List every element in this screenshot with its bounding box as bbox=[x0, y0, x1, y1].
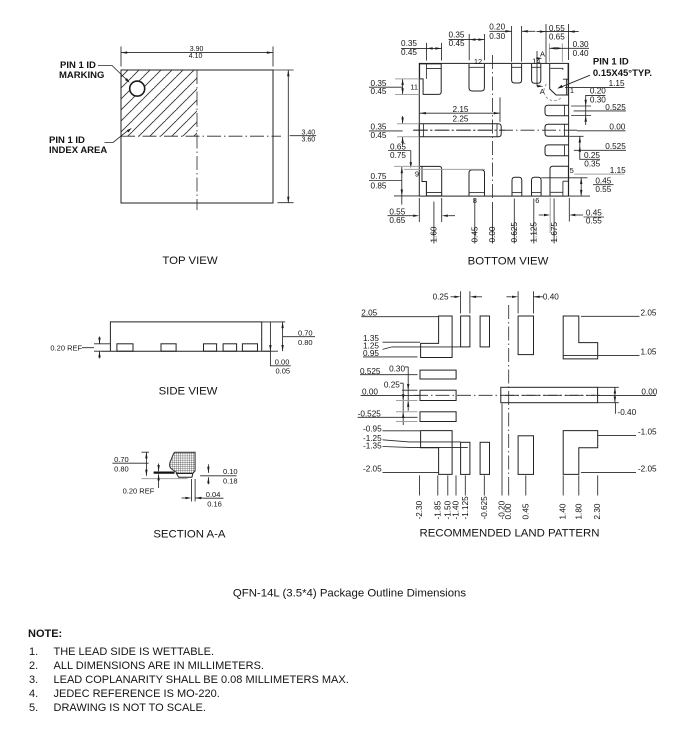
section cut line A-A bbox=[536, 51, 538, 86]
svg-text:0.45: 0.45 bbox=[371, 87, 387, 96]
pin 1 chamfer dashed arc bbox=[544, 84, 562, 101]
svg-text:-0.625: -0.625 bbox=[480, 496, 489, 520]
svg-text:0.45: 0.45 bbox=[471, 226, 480, 242]
dimension 0.04/0.16 bbox=[192, 479, 196, 502]
land pad bottom B bbox=[480, 442, 489, 474]
svg-text:A: A bbox=[540, 50, 545, 59]
svg-text:0.65: 0.65 bbox=[389, 216, 405, 225]
svg-text:0.45: 0.45 bbox=[449, 39, 465, 48]
svg-text:0.30: 0.30 bbox=[573, 40, 589, 49]
land pad bottom center bbox=[518, 436, 533, 475]
svg-text:2.15: 2.15 bbox=[453, 105, 469, 114]
bottom view horizontal centerline bbox=[413, 129, 577, 131]
exposed die pad bar bbox=[419, 124, 501, 137]
pad pin 7 bbox=[512, 177, 522, 196]
svg-text:6: 6 bbox=[535, 196, 539, 205]
land pad bottom A bbox=[461, 442, 470, 474]
svg-text:DRAWING IS NOT TO SCALE.: DRAWING IS NOT TO SCALE. bbox=[54, 702, 206, 714]
svg-text:THE LEAD SIDE IS WETTABLE.: THE LEAD SIDE IS WETTABLE. bbox=[54, 646, 215, 658]
svg-text:5: 5 bbox=[570, 166, 574, 175]
land pattern vertical centerline bbox=[508, 305, 510, 489]
dimension 3.90/4.10 extension lines bbox=[121, 47, 273, 67]
ordinate 1.15 (pin 1 row) bbox=[565, 87, 625, 89]
ordinate 0.525 (pin 2) bbox=[574, 110, 626, 112]
svg-text:0.20: 0.20 bbox=[590, 86, 606, 95]
corner pad pin 5 (bottom-right) bbox=[550, 166, 568, 196]
pad pin 14 bbox=[532, 64, 541, 83]
side view seating plane line bbox=[101, 350, 270, 352]
dimension 3.40/3.60 line bbox=[287, 70, 289, 203]
ordinate 0.525 (pin 4) bbox=[574, 149, 626, 151]
top view package body outline bbox=[121, 70, 273, 203]
SECTIONAA bbox=[112, 452, 237, 540]
svg-text:-2.05: -2.05 bbox=[363, 464, 382, 473]
svg-text:MARKING: MARKING bbox=[59, 70, 104, 81]
svg-text:QFN-14L (3.5*4) Package Outlin: QFN-14L (3.5*4) Package Outline Dimensio… bbox=[233, 588, 466, 600]
land pad corner bottom-right bbox=[563, 431, 598, 475]
ordinate 1.15 (pin 5 row) bbox=[574, 173, 624, 175]
section A-A lead thick line bbox=[154, 472, 175, 474]
svg-text:RECOMMENDED LAND PATTERN: RECOMMENDED LAND PATTERN bbox=[420, 528, 600, 540]
svg-text:9: 9 bbox=[415, 169, 419, 178]
dimension 0.70/0.80 (section) bbox=[141, 451, 149, 453]
svg-text:1.80: 1.80 bbox=[574, 503, 583, 519]
svg-text:0.00: 0.00 bbox=[504, 503, 513, 519]
svg-text:0.25: 0.25 bbox=[384, 380, 400, 389]
svg-text:0.45: 0.45 bbox=[401, 48, 417, 57]
svg-text:0.70: 0.70 bbox=[298, 329, 313, 338]
pad pin 3 bbox=[545, 124, 569, 136]
dimension 0.10/0.18 bbox=[207, 464, 209, 484]
land pad corner top-right bbox=[563, 316, 598, 359]
land pattern horizontal centerline bbox=[414, 394, 601, 396]
corner pad pin 1 (top-right) with chamfer bbox=[550, 64, 568, 95]
land pad corner top-left bbox=[421, 316, 453, 358]
bottom ordinate extension lines bbox=[420, 404, 598, 496]
svg-text:0.10: 0.10 bbox=[223, 467, 238, 476]
svg-text:-2.05: -2.05 bbox=[638, 464, 657, 473]
land pad left 3 bbox=[420, 412, 456, 422]
svg-text:0.16: 0.16 bbox=[207, 499, 222, 508]
svg-text:-0.40: -0.40 bbox=[618, 408, 637, 417]
section A-A lead foot lip bbox=[177, 474, 193, 478]
svg-text:0.85: 0.85 bbox=[371, 182, 387, 191]
svg-text:0.95: 0.95 bbox=[363, 349, 379, 358]
svg-text:2.30: 2.30 bbox=[593, 503, 602, 519]
svg-text:LEAD COPLANARITY SHALL BE 0.08: LEAD COPLANARITY SHALL BE 0.08 MILLIMETE… bbox=[54, 674, 349, 686]
svg-text:0.20 REF: 0.20 REF bbox=[50, 344, 82, 353]
svg-text:3.40: 3.40 bbox=[302, 129, 316, 136]
svg-text:0.00: 0.00 bbox=[275, 358, 290, 367]
leader to pin 1 chamfer bbox=[562, 75, 590, 87]
svg-text:0.55: 0.55 bbox=[586, 217, 602, 226]
pad pin 8 bbox=[469, 170, 485, 196]
dimension 0.70/0.80 extension bbox=[262, 322, 286, 366]
svg-text:0.35: 0.35 bbox=[584, 160, 600, 169]
svg-text:1.125: 1.125 bbox=[530, 222, 539, 243]
svg-text:0.525: 0.525 bbox=[605, 142, 626, 151]
svg-text:TOP VIEW: TOP VIEW bbox=[162, 255, 218, 267]
svg-text:ALL DIMENSIONS ARE IN MILLIMET: ALL DIMENSIONS ARE IN MILLIMETERS. bbox=[54, 660, 264, 672]
side view lead 1 bbox=[117, 344, 133, 351]
leader to index area bbox=[105, 131, 129, 143]
svg-text:SECTION A-A: SECTION A-A bbox=[153, 529, 226, 541]
ordinate 0.00 (centerline) bbox=[577, 130, 626, 132]
svg-text:3.60: 3.60 bbox=[302, 136, 316, 143]
svg-text:-1.125: -1.125 bbox=[461, 496, 470, 520]
svg-text:BOTTOM VIEW: BOTTOM VIEW bbox=[468, 256, 549, 268]
svg-text:0.625: 0.625 bbox=[510, 222, 519, 243]
svg-text:NOTE:: NOTE: bbox=[28, 628, 62, 640]
svg-text:-1.35: -1.35 bbox=[363, 442, 382, 451]
svg-text:0.75: 0.75 bbox=[390, 151, 406, 160]
side view lead 4 bbox=[223, 344, 237, 351]
svg-text:PIN 1 ID: PIN 1 ID bbox=[593, 56, 629, 67]
dimension 3.90/4.10 line bbox=[121, 52, 273, 54]
svg-text:0.40: 0.40 bbox=[573, 49, 589, 58]
svg-text:1.05: 1.05 bbox=[641, 348, 657, 357]
svg-text:0.70: 0.70 bbox=[114, 455, 129, 464]
pad pin 12 bbox=[469, 64, 484, 91]
svg-text:0.30: 0.30 bbox=[489, 32, 505, 41]
land pad top A bbox=[461, 316, 470, 347]
svg-text:0.30: 0.30 bbox=[590, 95, 606, 104]
svg-text:-2.30: -2.30 bbox=[415, 500, 424, 519]
svg-text:SIDE VIEW: SIDE VIEW bbox=[159, 386, 218, 398]
svg-text:0.80: 0.80 bbox=[114, 465, 129, 474]
bottom view vertical centerline bbox=[492, 55, 494, 201]
pin 1 ID marking circle bbox=[130, 81, 145, 96]
svg-text:0.40: 0.40 bbox=[543, 293, 559, 302]
svg-text:0.00: 0.00 bbox=[488, 226, 497, 242]
land pad top center bbox=[518, 316, 533, 355]
dimension 0.20 REF ticks bbox=[82, 344, 110, 351]
pad pin 13 bbox=[512, 64, 522, 83]
svg-text:0.45: 0.45 bbox=[371, 131, 387, 140]
svg-text:3.: 3. bbox=[29, 674, 38, 686]
svg-text:0.20 REF: 0.20 REF bbox=[123, 487, 155, 496]
svg-text:0.25: 0.25 bbox=[433, 293, 449, 302]
top view horizontal centerline bbox=[121, 135, 281, 137]
section A-A molded body cross-section (hatched) bbox=[170, 452, 196, 473]
land pad die bar bbox=[501, 387, 598, 402]
side view lead 5 bbox=[242, 344, 257, 351]
svg-text:0.80: 0.80 bbox=[298, 338, 313, 347]
svg-text:0.525: 0.525 bbox=[605, 103, 626, 112]
svg-text:2.05: 2.05 bbox=[641, 309, 657, 318]
svg-text:1.675: 1.675 bbox=[550, 222, 559, 243]
svg-text:12: 12 bbox=[474, 57, 482, 66]
land pad left 1 bbox=[420, 370, 456, 379]
side view package body bbox=[110, 322, 261, 351]
bottom ordinate extension lines bbox=[434, 199, 554, 244]
svg-text:4.: 4. bbox=[29, 688, 38, 700]
dimension -0.40 right bbox=[598, 387, 619, 402]
dimension 3.40/3.60 extension lines bbox=[273, 70, 294, 203]
svg-text:1.15: 1.15 bbox=[610, 166, 626, 175]
svg-text:-1.40: -1.40 bbox=[452, 500, 461, 519]
pad pin 4 bbox=[545, 145, 569, 156]
section A-A seating line bbox=[141, 478, 187, 480]
svg-text:0.00: 0.00 bbox=[609, 123, 625, 132]
corner pad pin 12 area (top-left) bbox=[420, 64, 442, 95]
svg-text:0.15X45°TYP.: 0.15X45°TYP. bbox=[593, 68, 652, 79]
svg-text:0.55: 0.55 bbox=[389, 207, 405, 216]
svg-text:0.05: 0.05 bbox=[276, 367, 291, 376]
svg-text:1.: 1. bbox=[29, 646, 38, 658]
leader to pin 1 marking bbox=[98, 66, 127, 81]
svg-text:11: 11 bbox=[410, 83, 418, 92]
pin 1 index hatch area bbox=[122, 71, 198, 137]
svg-text:-1.05: -1.05 bbox=[638, 427, 657, 436]
svg-text:0.65: 0.65 bbox=[549, 33, 565, 42]
side view lead 2 bbox=[161, 344, 176, 351]
svg-text:0.55: 0.55 bbox=[595, 185, 611, 194]
svg-text:JEDEC REFERENCE IS MO-220.: JEDEC REFERENCE IS MO-220. bbox=[54, 688, 220, 700]
svg-text:2.: 2. bbox=[29, 660, 38, 672]
land pad top B bbox=[480, 316, 489, 347]
svg-text:1.60: 1.60 bbox=[430, 226, 439, 242]
svg-text:INDEX AREA: INDEX AREA bbox=[49, 145, 107, 156]
svg-text:2.25: 2.25 bbox=[453, 114, 469, 123]
svg-text:0.04: 0.04 bbox=[206, 490, 221, 499]
svg-text:0.18: 0.18 bbox=[223, 477, 238, 486]
corner pad pin 9 (bottom-left) bbox=[420, 166, 442, 196]
land pad corner bottom-left bbox=[421, 431, 453, 475]
svg-text:0.35: 0.35 bbox=[401, 39, 417, 48]
svg-text:0.30: 0.30 bbox=[389, 364, 405, 373]
pad pin 2 bbox=[545, 105, 569, 116]
dimension 0.00/0.05 bbox=[263, 350, 278, 352]
svg-text:1.15: 1.15 bbox=[609, 79, 625, 88]
pad pin 6 bbox=[532, 177, 542, 196]
svg-text:0.45: 0.45 bbox=[521, 503, 530, 519]
bottom view package body outline bbox=[419, 63, 568, 196]
svg-text:1.40: 1.40 bbox=[559, 503, 568, 519]
svg-text:0.75: 0.75 bbox=[371, 172, 387, 181]
top view vertical centerline bbox=[196, 70, 198, 210]
land pad left 2 bbox=[420, 390, 456, 400]
svg-text:5.: 5. bbox=[29, 702, 38, 714]
svg-text:0.20: 0.20 bbox=[489, 23, 505, 32]
svg-text:-0.95: -0.95 bbox=[363, 424, 382, 433]
dimension 0.70/0.80 line bbox=[282, 322, 284, 351]
svg-text:4.10: 4.10 bbox=[189, 53, 203, 60]
side view lead 3 bbox=[204, 344, 217, 351]
svg-text:-1.85: -1.85 bbox=[433, 500, 442, 519]
